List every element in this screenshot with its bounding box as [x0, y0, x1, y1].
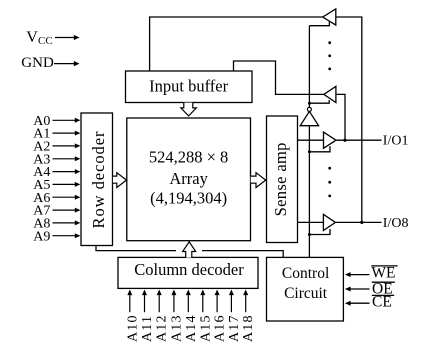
svg-text:Row decoder: Row decoder: [89, 131, 108, 229]
wire OE arrow: [345, 287, 370, 292]
inverter U5 (enable inverter): [300, 111, 318, 125]
wire T2 enable tap: [309, 100, 329, 103]
wire A8 arrow: [53, 220, 81, 225]
wire T1 input from I/O8 line: [336, 17, 362, 222]
wire T4 to I/O8: [335, 221, 381, 223]
hollow arrow input buffer down to array: [181, 103, 197, 116]
svg-text:I/O8: I/O8: [383, 216, 409, 231]
junction dot T4 enable: [308, 233, 311, 236]
wire sense amp to T4: [298, 221, 324, 223]
wire T2 input from I/O1 line: [336, 94, 345, 140]
svg-text:CC: CC: [38, 35, 53, 47]
svg-text:Sense amp: Sense amp: [271, 142, 290, 216]
wire T4 enable tap: [309, 229, 330, 235]
wire row decoder bottom bus: [96, 246, 283, 258]
control circuit box: [267, 257, 344, 321]
wire A13 arrow: [171, 290, 176, 313]
row decoder box: [81, 113, 113, 246]
inverter bubble: [307, 107, 311, 111]
wire A2 arrow: [53, 143, 81, 148]
wire A15 arrow: [200, 290, 205, 313]
wire GND arrow: [54, 61, 80, 66]
hollow arrow array to sense amp: [251, 173, 266, 188]
buffer T3 (output buffer I/O1): [324, 132, 337, 148]
wire A0 arrow: [53, 118, 81, 123]
svg-text:V: V: [26, 29, 38, 46]
svg-text:Input buffer: Input buffer: [149, 76, 228, 95]
junction dot T2 enable: [308, 102, 311, 105]
wire A11 arrow: [142, 290, 147, 313]
svg-text:GND: GND: [21, 55, 54, 71]
hollow arrow row decoder to array: [113, 173, 127, 188]
wire A16 arrow: [215, 290, 220, 313]
buffer T2 (input buffer for I/O1): [324, 86, 336, 102]
svg-text:A16: A16: [213, 314, 228, 342]
svg-text:I/O1: I/O1: [383, 134, 409, 149]
svg-text:A18: A18: [241, 314, 256, 342]
wire A6 arrow: [53, 195, 81, 200]
svg-text:A12: A12: [155, 314, 170, 342]
wire T1 enable tap: [309, 21, 329, 26]
svg-text:(4,194,304): (4,194,304): [150, 189, 227, 208]
wire T1 output to input buffer top: [150, 17, 323, 71]
wire A17 arrow: [229, 290, 234, 313]
svg-text:A15: A15: [198, 314, 213, 342]
buffer T1 (input buffer for I/O8): [323, 9, 336, 25]
label WE with overline: [371, 264, 397, 281]
hollow arrow column decoder up to array: [183, 242, 196, 258]
wire A14 arrow: [186, 290, 191, 313]
svg-text:524,288 × 8: 524,288 × 8: [149, 148, 228, 167]
wire CE arrow: [345, 301, 370, 306]
label OE with overline: [372, 281, 395, 298]
wire T3 enable tap: [309, 146, 330, 152]
wire sense amp to T3: [298, 139, 324, 141]
wire A10 arrow: [127, 290, 132, 313]
svg-text:A9: A9: [33, 229, 50, 244]
wire A3 arrow: [53, 156, 81, 161]
wire WE arrow: [345, 272, 370, 277]
wire A4 arrow: [53, 169, 81, 174]
ellipsis dots between T1 and T2: [328, 41, 331, 70]
wire A7 arrow: [53, 208, 81, 213]
wire input enable vertical (from inverter bubble up): [308, 26, 310, 108]
svg-text:Control: Control: [282, 265, 329, 282]
svg-text:A11: A11: [140, 315, 155, 342]
sense amp box: [267, 116, 298, 243]
svg-text:A14: A14: [184, 314, 199, 342]
ellipsis dots between T3 and T4: [328, 167, 331, 198]
wire inverter input vertical to control circuit: [308, 126, 310, 258]
wire A18 arrow: [243, 290, 248, 313]
label VCC: [26, 29, 52, 47]
svg-text:CE: CE: [372, 293, 392, 310]
svg-text:A13: A13: [169, 314, 184, 342]
svg-text:Column decoder: Column decoder: [134, 260, 244, 279]
column decoder box: [118, 257, 258, 288]
junction dot I/O1: [343, 139, 346, 142]
wire VCC arrow: [55, 35, 80, 40]
memory array box: [127, 118, 251, 241]
input buffer box: [126, 71, 253, 103]
junction dot T3 enable: [308, 150, 311, 153]
wire T2 output to input buffer top: [234, 61, 324, 94]
wire A12 arrow: [157, 290, 162, 313]
svg-text:A17: A17: [227, 314, 242, 342]
buffer T4 (output buffer I/O8): [323, 214, 335, 230]
wire T3 to I/O1: [336, 139, 382, 141]
svg-text:Circuit: Circuit: [284, 285, 328, 302]
svg-text:Array: Array: [169, 169, 208, 188]
junction dot I/O8: [360, 221, 363, 224]
label CE with overline: [372, 293, 394, 310]
wire A9 arrow: [53, 233, 81, 238]
svg-text:A10: A10: [125, 314, 140, 342]
svg-text:WE: WE: [371, 264, 395, 281]
wire A5 arrow: [53, 182, 81, 187]
wire A1 arrow: [53, 131, 81, 136]
